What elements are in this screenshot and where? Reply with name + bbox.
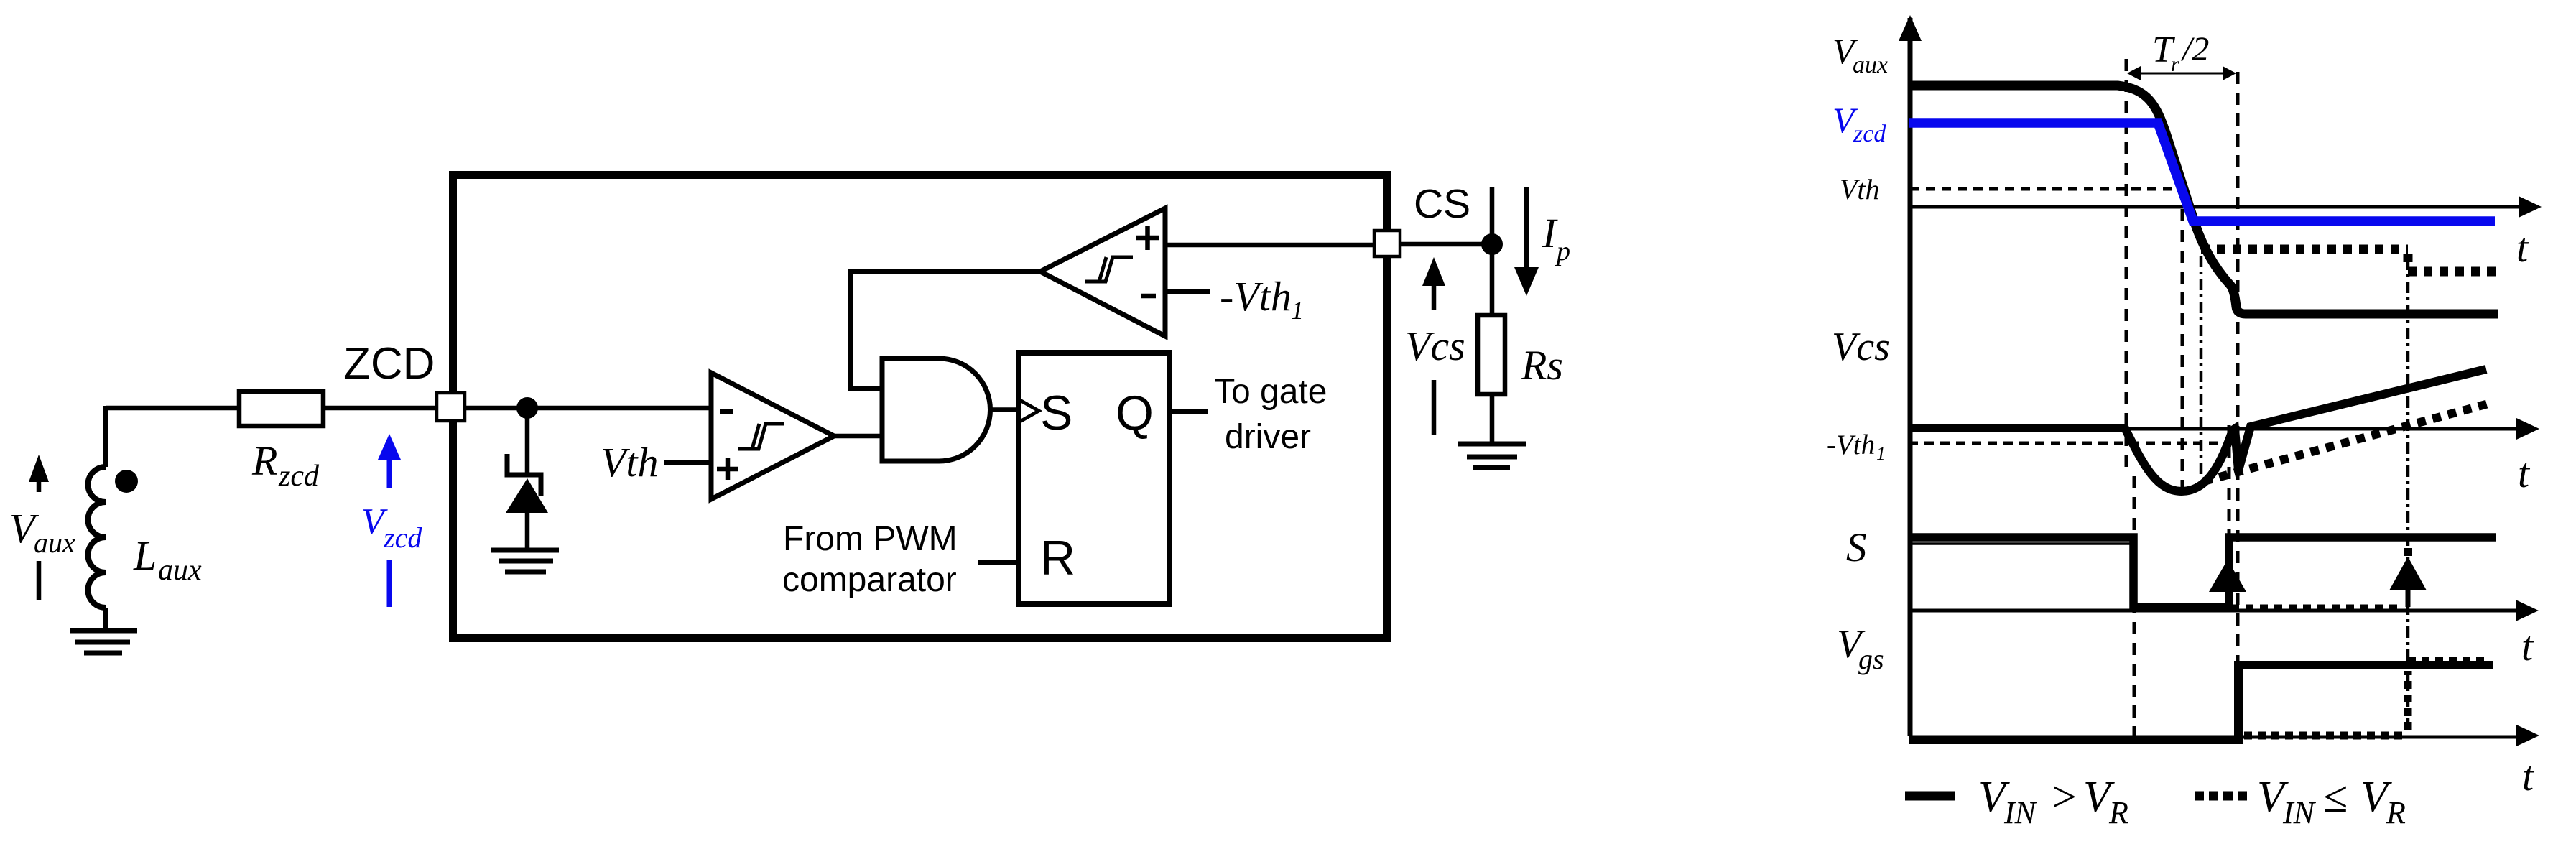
svg-text:aux: aux	[34, 526, 75, 559]
svg-text:R: R	[2108, 795, 2128, 830]
svg-text:driver: driver	[1225, 418, 1311, 456]
svg-text:IN: IN	[2282, 795, 2317, 830]
svg-text:zcd: zcd	[278, 460, 320, 493]
svg-text:aux: aux	[1853, 52, 1888, 78]
svg-text:zcd: zcd	[1853, 121, 1886, 147]
svg-text:I: I	[1542, 210, 1558, 256]
svg-text:Rs: Rs	[1521, 342, 1563, 389]
svg-text:zcd: zcd	[383, 521, 422, 554]
svg-text:t: t	[2521, 623, 2534, 669]
svg-text:To gate: To gate	[1214, 373, 1327, 411]
svg-text:/2: /2	[2180, 30, 2209, 68]
svg-text:Vcs: Vcs	[1832, 325, 1890, 369]
svg-text:R: R	[2386, 795, 2406, 830]
svg-text:From PWM: From PWM	[783, 520, 958, 558]
svg-text:ZCD: ZCD	[343, 339, 435, 389]
svg-text:p: p	[1555, 236, 1570, 266]
svg-text:1: 1	[1291, 296, 1304, 325]
svg-text:gs: gs	[1858, 643, 1884, 675]
svg-text:comparator: comparator	[782, 561, 957, 599]
svg-text:1: 1	[1876, 443, 1886, 464]
svg-text:-Vth: -Vth	[1827, 430, 1875, 460]
svg-text:t: t	[2522, 753, 2535, 799]
svg-text:t: t	[2518, 450, 2531, 496]
svg-text:t: t	[2516, 224, 2529, 271]
svg-text:≤: ≤	[2323, 773, 2348, 822]
svg-text:Vcs: Vcs	[1405, 323, 1465, 369]
svg-text:S: S	[1040, 386, 1072, 440]
svg-text:R: R	[1040, 531, 1075, 585]
svg-text:aux: aux	[158, 554, 202, 587]
svg-text:-Vth: -Vth	[1220, 273, 1292, 320]
svg-text:Q: Q	[1116, 386, 1154, 440]
svg-text:r: r	[2171, 52, 2179, 76]
svg-text:R: R	[251, 437, 277, 484]
svg-text:CS: CS	[1414, 181, 1470, 227]
svg-text:L: L	[133, 532, 157, 579]
svg-text:>: >	[2049, 773, 2079, 822]
svg-text:Vth: Vth	[1840, 173, 1880, 205]
svg-text:S: S	[1846, 525, 1867, 570]
svg-text:IN: IN	[2003, 795, 2038, 830]
svg-text:Vth: Vth	[601, 439, 659, 486]
